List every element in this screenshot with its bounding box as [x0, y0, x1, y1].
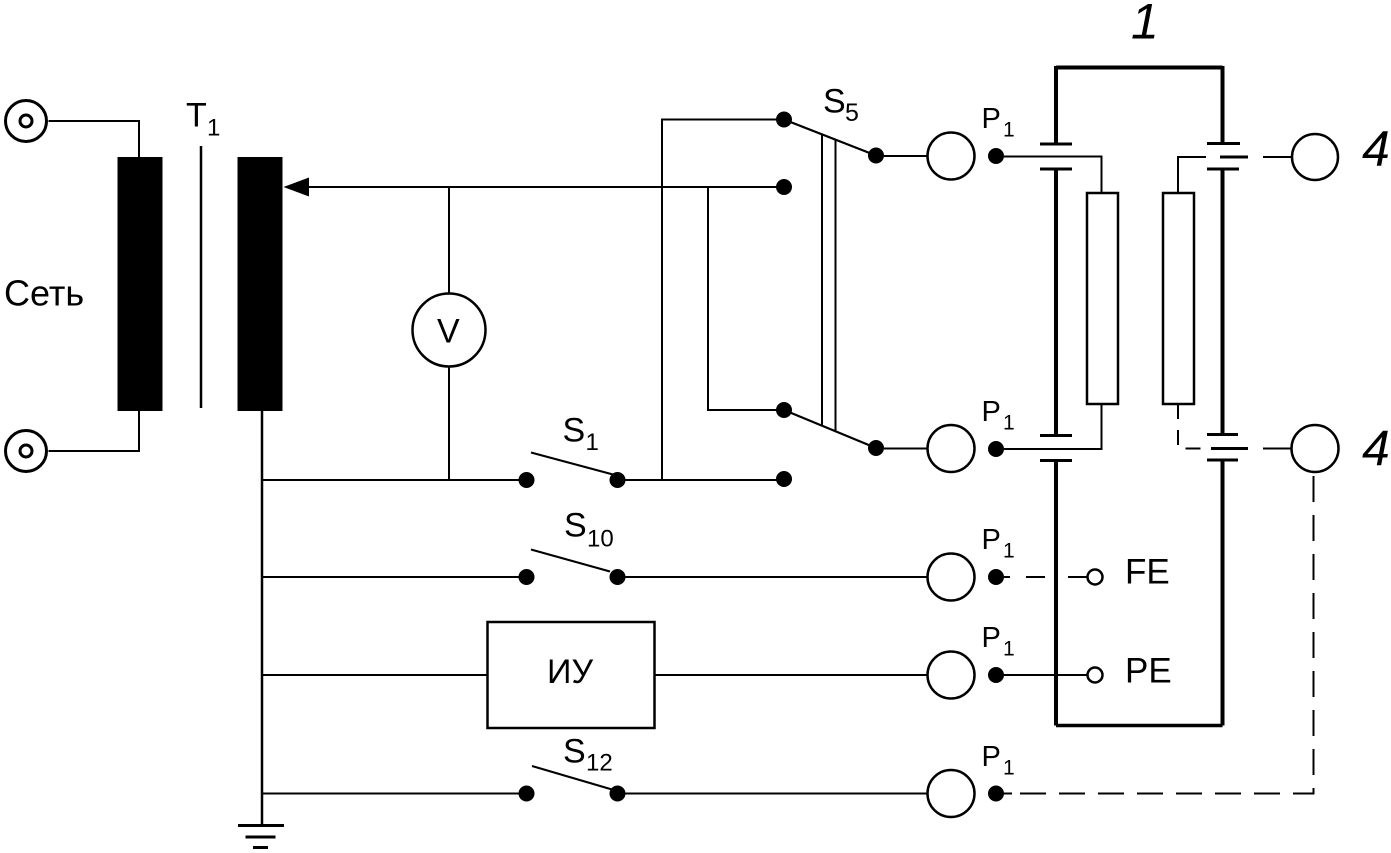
switch S10 — [519, 569, 535, 585]
svg-text:5: 5 — [845, 99, 859, 127]
arrowhead into T1 secondary — [284, 178, 310, 197]
terminal X2 bottom (mains) — [6, 431, 47, 472]
transformer T1 secondary winding — [238, 157, 283, 411]
svg-text:S: S — [563, 412, 586, 450]
svg-text:PE: PE — [1125, 652, 1172, 691]
probe tip dot row3 — [988, 569, 1004, 585]
wire X2 to T1 primary bottom — [49, 411, 140, 451]
svg-text:S: S — [823, 83, 846, 121]
svg-text:Р: Р — [982, 741, 1001, 773]
svg-text:1: 1 — [1003, 412, 1015, 435]
svg-text:1: 1 — [1003, 119, 1015, 142]
probe circle P1 row3 — [928, 554, 975, 601]
wire S5 to probe row2 — [884, 448, 928, 450]
device 1 top bracket — [1056, 66, 1223, 70]
dashed wire probe row3 to FE terminal — [1004, 576, 1087, 578]
transformer T1 primary winding — [118, 157, 163, 411]
wire voltmeter bottom branch — [448, 367, 450, 480]
svg-text:4: 4 — [1362, 421, 1390, 477]
svg-text:10: 10 — [587, 526, 614, 553]
probe circle P1 row2 — [928, 425, 975, 472]
svg-text:FE: FE — [1125, 553, 1170, 592]
svg-text:12: 12 — [586, 750, 613, 777]
ground — [238, 826, 284, 848]
svg-text:1: 1 — [1003, 540, 1015, 563]
probe circle P1 row1 — [928, 133, 975, 180]
device left wall bottom segment — [1054, 461, 1058, 726]
svg-text:1: 1 — [1003, 638, 1015, 661]
svg-text:1: 1 — [207, 115, 220, 142]
probe tip dot row1 — [988, 148, 1004, 164]
PE terminal circle — [1088, 668, 1103, 683]
wire S1 to S5 bottom contact row — [626, 479, 779, 481]
wire S12 row from bus — [262, 793, 519, 795]
svg-text:Сеть: Сеть — [4, 273, 84, 314]
svg-text:S: S — [563, 733, 586, 771]
svg-text:1: 1 — [1131, 0, 1159, 50]
device right wall middle segment — [1221, 169, 1225, 435]
resistor R2 (right) — [1163, 193, 1194, 404]
svg-text:Р: Р — [982, 524, 1001, 556]
svg-text:Р: Р — [982, 622, 1001, 654]
wire S10 to probe row3 — [626, 576, 929, 578]
block IU (test device) — [488, 622, 655, 728]
node dot S1 line end — [776, 471, 792, 487]
device bottom wall — [1056, 724, 1223, 728]
capacitor mid-left plates — [1040, 434, 1072, 437]
dashed wire probe row5 to terminal 4 bottom — [1004, 793, 1012, 795]
wire IU row from bus — [262, 674, 487, 676]
wire row2 to resistor R1 bottom — [1004, 404, 1102, 449]
terminal X1 top (mains) — [6, 101, 47, 142]
wire probe row4 to PE terminal — [1004, 674, 1088, 676]
wire S1 row from bus — [262, 479, 519, 481]
probe tip dot row2 — [988, 441, 1004, 457]
device left wall middle segment — [1054, 169, 1058, 436]
switch S12 — [519, 786, 535, 802]
dashed wire resistor R2 bottom to capacitor mid-right — [1178, 404, 1206, 449]
wire resistor R2 top to capacitor top-right — [1178, 157, 1206, 193]
svg-text:V: V — [437, 313, 460, 351]
wire voltmeter top branch — [448, 187, 450, 294]
wire row1 to resistor R1 top — [1004, 157, 1102, 194]
svg-text:S: S — [564, 507, 587, 545]
FE terminal circle — [1088, 570, 1103, 585]
wire secondary bottom to ground bus — [261, 411, 264, 826]
switch S1 — [519, 472, 535, 488]
device right wall bottom segment — [1221, 460, 1225, 726]
capacitor top-left plates — [1040, 143, 1072, 146]
wire tap line (arrow into secondary) to S5 middle contact — [306, 186, 784, 188]
switch S5 top pole — [776, 112, 792, 128]
wire capacitor top-right to terminal 4 top — [1263, 156, 1292, 158]
svg-text:ИУ: ИУ — [547, 653, 593, 691]
probe tip dot row4 — [988, 667, 1004, 683]
svg-text:4: 4 — [1362, 121, 1390, 177]
switch S5 mechanical link — [821, 135, 823, 426]
probe circle P1 row5 — [928, 770, 975, 817]
wire S5 top-left feed (from S1 row up and over) — [662, 120, 784, 481]
node dot tap line end — [776, 179, 792, 195]
wire S10 row from bus — [262, 576, 519, 578]
probe circle P1 row4 — [928, 652, 975, 699]
wire X1 to T1 primary top — [49, 121, 140, 158]
voltmeter PV1 — [413, 294, 486, 367]
svg-text:Р: Р — [982, 103, 1001, 135]
wire capacitor mid-right to terminal 4 bottom — [1263, 448, 1292, 450]
resistor R1 (left) — [1087, 193, 1118, 404]
svg-text:1: 1 — [1003, 757, 1015, 780]
capacitor top-right plates — [1207, 142, 1240, 145]
svg-text:1: 1 — [586, 429, 599, 456]
switch S5 bottom pole — [776, 402, 792, 418]
transformer T1 core — [200, 146, 203, 408]
probe tip dot row5 — [988, 786, 1004, 802]
terminal 4 bottom circle — [1292, 425, 1339, 472]
wire S5 bottom-left feed (from tap line down) — [708, 188, 778, 410]
wire S5 to probe row1 — [884, 155, 928, 157]
wire IU to probe row4 — [655, 674, 928, 676]
terminal 4 top circle — [1292, 134, 1338, 180]
svg-text:Р: Р — [982, 396, 1001, 428]
capacitor mid-right plates — [1207, 433, 1238, 436]
svg-text:Т: Т — [186, 97, 207, 135]
wire S12 to probe row5 — [626, 793, 929, 795]
